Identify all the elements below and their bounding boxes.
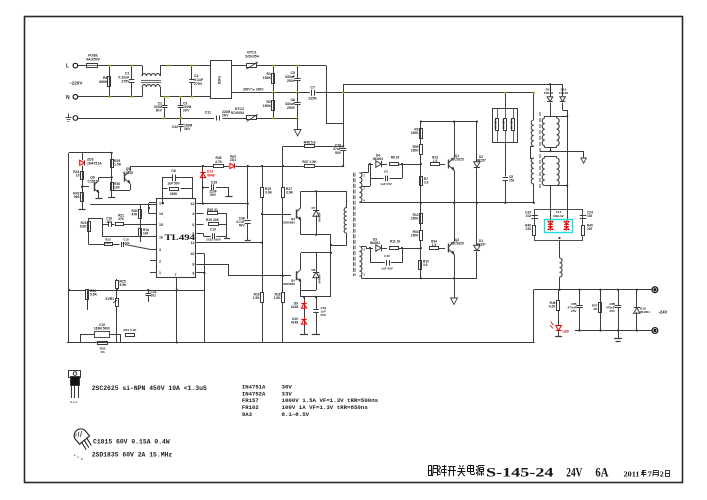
svg-text:9: 9 <box>192 272 194 276</box>
svg-text:C13: C13 <box>210 228 216 232</box>
svg-text:IN4001: IN4001 <box>370 241 381 245</box>
svg-text:R31 5.1K: R31 5.1K <box>123 328 137 332</box>
svg-text:226K: 226K <box>170 192 178 196</box>
svg-text:C1815: C1815 <box>88 180 98 184</box>
svg-text:13: 13 <box>159 212 163 216</box>
svg-text:102: 102 <box>526 214 532 218</box>
svg-text:-24V: -24V <box>659 310 668 315</box>
svg-text:10: 10 <box>76 174 80 178</box>
svg-text:R26 31: R26 31 <box>207 208 218 212</box>
svg-text:6: 6 <box>192 223 194 227</box>
svg-text:225K: 225K <box>308 97 317 101</box>
svg-text:C1815: C1815 <box>123 171 133 175</box>
svg-text:102: 102 <box>587 214 593 218</box>
svg-text:R11 16: R11 16 <box>390 240 400 244</box>
svg-text:D92-02: D92-02 <box>553 214 563 218</box>
svg-text:SCK054: SCK054 <box>245 55 259 59</box>
svg-text:4A/250V: 4A/250V <box>86 58 101 62</box>
svg-text:1.5K: 1.5K <box>253 296 260 300</box>
svg-text:1.5K: 1.5K <box>114 163 122 167</box>
svg-text:N: N <box>66 95 70 101</box>
svg-text:1.5K: 1.5K <box>274 296 281 300</box>
svg-text:2SD1835 60V 2A 15.MHz: 2SD1835 60V 2A 15.MHz <box>92 451 173 458</box>
svg-text:47K: 47K <box>131 213 138 217</box>
svg-text:b c e: b c e <box>71 400 78 404</box>
svg-text:250V: 250V <box>287 79 296 83</box>
svg-text:1N4751A: 1N4751A <box>87 161 102 165</box>
svg-text:200V: 200V <box>243 87 251 91</box>
svg-text:24V: 24V <box>566 465 582 479</box>
svg-text:200V: 200V <box>256 87 264 91</box>
svg-text:2232 630V: 2232 630V <box>206 238 222 242</box>
svg-text:IN4734: IN4734 <box>318 274 322 284</box>
svg-text:220: 220 <box>587 227 593 231</box>
svg-text:104: 104 <box>106 220 112 224</box>
svg-text:4: 4 <box>192 212 194 216</box>
svg-text:15: 15 <box>159 223 163 227</box>
svg-text:9a3: 9a3 <box>230 155 236 159</box>
svg-text:50V: 50V <box>239 224 246 228</box>
svg-text:104: 104 <box>143 232 149 236</box>
svg-text:C1815 60V 0.15A 0.4W: C1815 60V 0.15A 0.4W <box>93 439 170 446</box>
svg-text:2SC2625: 2SC2625 <box>450 242 464 246</box>
svg-text:8.1—8.5V: 8.1—8.5V <box>282 411 310 418</box>
svg-text:2SC2625: 2SC2625 <box>450 158 464 162</box>
svg-text:2SD0835: 2SD0835 <box>282 282 295 286</box>
svg-text:R5 1R4: R5 1R4 <box>509 119 513 129</box>
svg-text:R8 16: R8 16 <box>391 156 400 160</box>
svg-text:163M 500V: 163M 500V <box>94 327 111 331</box>
svg-text:50V: 50V <box>210 193 217 197</box>
svg-text:1%: 1% <box>100 350 105 354</box>
svg-text:R3 1R4: R3 1R4 <box>494 119 498 129</box>
svg-text:C32: C32 <box>172 125 178 129</box>
svg-text:680K: 680K <box>99 80 108 84</box>
svg-text:5.9K: 5.9K <box>120 283 128 287</box>
svg-text:R48 5.6: R48 5.6 <box>304 141 316 145</box>
svg-text:2KV: 2KV <box>156 109 163 113</box>
svg-text:250V: 250V <box>287 106 296 110</box>
svg-text:SCK054: SCK054 <box>231 111 244 115</box>
svg-text:50V: 50V <box>321 313 327 317</box>
svg-text:BDG: BDG <box>218 76 222 84</box>
svg-text:101: 101 <box>151 294 157 298</box>
svg-text:2232: 2232 <box>123 241 130 245</box>
svg-text:1.9: 1.9 <box>433 159 438 163</box>
svg-text:2011: 2011 <box>624 470 640 479</box>
svg-text:1.9: 1.9 <box>432 243 437 247</box>
svg-text:2: 2 <box>660 470 664 479</box>
svg-text:FR157: FR157 <box>476 243 486 247</box>
svg-text:2KV: 2KV <box>222 114 229 118</box>
svg-text:7: 7 <box>648 470 652 479</box>
svg-text:L: L <box>66 64 69 70</box>
svg-text:8: 8 <box>192 263 194 267</box>
svg-text:C5: C5 <box>384 170 388 174</box>
svg-text:C7: C7 <box>310 86 315 90</box>
svg-text:275V: 275V <box>121 80 130 84</box>
svg-text:22K: 22K <box>105 241 111 245</box>
svg-text:50V: 50V <box>335 151 342 155</box>
svg-text:SVR1: SVR1 <box>105 297 114 301</box>
svg-text:ZD1: ZD1 <box>230 158 237 162</box>
svg-text:IN4001: IN4001 <box>373 157 384 161</box>
svg-text:1uF 50V: 1uF 50V <box>381 266 393 270</box>
svg-text:150K: 150K <box>411 217 419 221</box>
svg-text:IN4001: IN4001 <box>640 310 650 314</box>
svg-text:3.9: 3.9 <box>424 181 429 185</box>
svg-text:3.9: 3.9 <box>423 263 428 267</box>
svg-text:10: 10 <box>190 252 194 256</box>
svg-text:4048: 4048 <box>207 173 215 177</box>
svg-text:R4 1R4: R4 1R4 <box>502 119 506 129</box>
svg-text:C6: C6 <box>171 169 176 173</box>
svg-text:FR102: FR102 <box>559 91 569 95</box>
svg-text:150K: 150K <box>263 76 272 80</box>
svg-text:7: 7 <box>175 273 177 277</box>
svg-text:C10: C10 <box>384 254 390 258</box>
svg-text:FR157: FR157 <box>476 159 486 163</box>
svg-text:150K: 150K <box>411 234 419 238</box>
svg-text:R37 1.5K: R37 1.5K <box>302 160 317 164</box>
svg-text:C11: C11 <box>205 111 211 115</box>
svg-text:150K: 150K <box>411 131 419 135</box>
svg-text:LED: LED <box>563 330 570 334</box>
svg-text:150K: 150K <box>411 149 419 153</box>
svg-text:FR102: FR102 <box>544 91 554 95</box>
svg-text:25V: 25V <box>571 309 577 313</box>
svg-text:2: 2 <box>159 260 161 264</box>
svg-text:1uF 50V: 1uF 50V <box>167 181 180 185</box>
svg-text:152: 152 <box>509 179 515 183</box>
svg-text:12: 12 <box>190 202 194 206</box>
svg-text:6A: 6A <box>595 465 608 479</box>
svg-text:2KV: 2KV <box>184 127 191 131</box>
svg-text:2SC2625 si-NPN 450V 10A <1.3uS: 2SC2625 si-NPN 450V 10A <1.3uS <box>92 385 207 392</box>
svg-text:1uF 50V: 1uF 50V <box>380 182 392 186</box>
svg-text:4.2K: 4.2K <box>549 305 556 309</box>
svg-text:IN4734: IN4734 <box>318 212 322 222</box>
svg-text:~220V: ~220V <box>69 81 83 86</box>
svg-text:S-145-24: S-145-24 <box>486 465 554 479</box>
svg-text:3: 3 <box>159 248 161 252</box>
svg-text:11: 11 <box>191 241 195 245</box>
svg-text:C29: C29 <box>211 181 217 185</box>
svg-text:D8: D8 <box>312 268 316 272</box>
svg-text:560: 560 <box>74 195 80 199</box>
svg-text:3.9K: 3.9K <box>286 191 294 195</box>
svg-text:D7: D7 <box>312 206 316 210</box>
svg-text:4148: 4148 <box>291 321 298 325</box>
svg-text:47K: 47K <box>118 217 125 221</box>
svg-text:275V: 275V <box>194 82 203 86</box>
svg-text:25V: 25V <box>609 309 615 313</box>
svg-text:100: 100 <box>114 186 120 190</box>
svg-text:1: 1 <box>159 271 161 275</box>
svg-text:2SD0835: 2SD0835 <box>282 220 295 224</box>
svg-text:9A3: 9A3 <box>242 411 253 418</box>
svg-text:5: 5 <box>192 232 194 236</box>
svg-text:4.7K: 4.7K <box>215 160 223 164</box>
svg-text:4148: 4148 <box>291 305 298 309</box>
svg-text:16: 16 <box>159 236 163 240</box>
svg-text:R19 22K: R19 22K <box>206 218 220 222</box>
svg-text:220: 220 <box>526 227 532 231</box>
svg-text:2KV: 2KV <box>183 109 190 113</box>
svg-text:3.9K: 3.9K <box>265 191 273 195</box>
svg-text:5.6K: 5.6K <box>90 293 98 297</box>
svg-text:5.6K: 5.6K <box>80 225 87 229</box>
svg-text:150K: 150K <box>263 104 272 108</box>
